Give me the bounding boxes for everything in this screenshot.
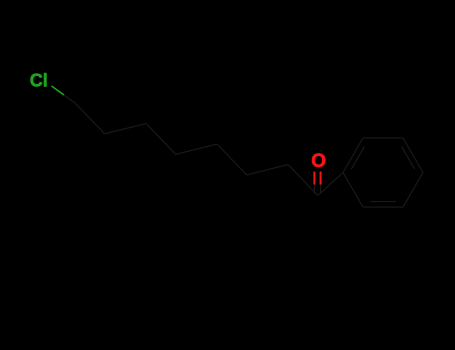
bond C3-C4: [146, 124, 176, 155]
ring inner double C-D: [402, 147, 415, 170]
ring edge F-A: [343, 173, 363, 208]
ring inner double A-B: [351, 147, 364, 170]
ring edge E-F: [363, 206, 403, 208]
ring edge C-D: [403, 138, 423, 173]
bond C7-C8: [288, 165, 318, 196]
ring edge B-C: [363, 137, 403, 139]
bond C6-C7: [247, 165, 289, 175]
bond C5-C6: [217, 144, 247, 175]
carbonyl C8=O red line right: [320, 172, 322, 185]
svg-text:O: O: [311, 151, 326, 172]
bond C4-C5: [176, 144, 217, 154]
bond Cl-C1 green half: [52, 86, 65, 95]
carbonyl C8=O dark line right: [320, 185, 322, 194]
ring edge D-E: [403, 173, 423, 208]
bond Cl-C1 dark half: [64, 95, 75, 103]
bond C2-C3: [105, 124, 147, 134]
carbonyl C8=O red line left: [313, 172, 315, 185]
ring inner double E-F: [370, 201, 396, 203]
svg-text:Cl: Cl: [30, 70, 48, 90]
bond C1-C2: [75, 103, 105, 134]
carbonyl C8=O dark line left: [313, 185, 315, 194]
bond C8-ring: [318, 173, 343, 196]
ring edge A-B: [343, 138, 363, 173]
